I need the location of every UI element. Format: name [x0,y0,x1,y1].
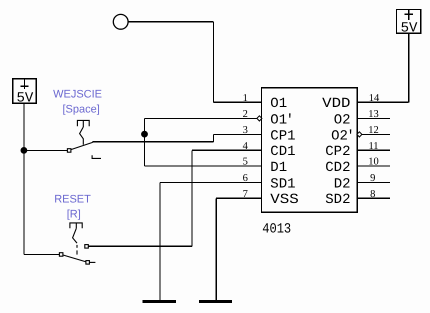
node diamond pin12 [357,132,362,137]
wire stub pin12 [357,133,390,135]
svg-text:4: 4 [243,141,249,152]
svg-text:WEJSCIE: WEJSCIE [53,88,102,100]
wire 5V left down [23,103,25,254]
svg-text:O1: O1 [270,96,287,112]
svg-text:14: 14 [369,93,380,104]
svg-text:D1: D1 [270,160,287,176]
svg-text:10: 10 [368,157,379,168]
svg-text:3: 3 [243,125,248,136]
switch S1 contacts [67,141,101,158]
op IC U1 4013 box [262,88,358,212]
svg-text:CP1: CP1 [270,128,295,144]
svg-text:2: 2 [243,109,248,120]
svg-text:1: 1 [243,93,248,104]
wire pin1 [213,101,261,103]
svg-text:6: 6 [243,173,248,184]
wire pin4 CD1 [192,149,262,151]
svg-text:[R]: [R] [67,209,81,221]
svg-text:11: 11 [368,141,378,152]
svg-text:VSS: VSS [270,192,299,208]
wire pin2 O1' [145,117,262,119]
svg-text:4013: 4013 [262,221,291,237]
wire pin3 CP1 [213,133,261,135]
switch S2 actuator [70,223,82,255]
svg-text:9: 9 [370,173,375,184]
svg-text:13: 13 [368,109,379,120]
svg-text:[Space]: [Space] [63,103,100,115]
ground GND2 [199,300,232,303]
svg-text:CD2: CD2 [325,160,350,176]
wire O1' to D1 [144,118,146,166]
wire stub pin13 [357,117,390,119]
wire stub pin11 [357,149,390,151]
svg-text:5V: 5V [401,21,418,37]
svg-text:VDD: VDD [322,96,350,112]
wire VSS to ground [215,198,217,300]
wire [408,33,410,102]
svg-text:RESET: RESET [54,193,91,205]
svg-text:5V: 5V [17,90,34,106]
wire pin14 [357,101,408,103]
wire CD1 horizontal [88,245,192,247]
switch S2 contacts [59,245,95,265]
svg-text:CD1: CD1 [270,144,295,160]
switch S1 actuator [77,120,89,144]
power supply V1 (left 5V) [13,79,37,107]
svg-text:5: 5 [243,157,248,168]
svg-text:O2: O2 [334,112,351,128]
wire SD1 to ground [159,183,161,301]
svg-text:O2': O2' [331,128,355,144]
wire stub pin9 [357,182,390,184]
svg-text:CP2: CP2 [325,144,350,160]
junction dot A [21,147,28,154]
svg-text:SD1: SD1 [270,176,295,192]
svg-text:O1': O1' [270,112,294,128]
svg-text:12: 12 [368,125,379,136]
wire stub pin8 [357,197,390,199]
ground GND1 [143,300,176,303]
svg-text:8: 8 [370,189,375,200]
wire stub pin10 [357,165,390,167]
wire pin6 SD1 [160,182,262,184]
svg-text:D2: D2 [334,176,351,192]
power supply V2 (top right 5V) [397,9,421,36]
wire jog [212,134,214,141]
svg-text:7: 7 [243,189,248,200]
wire to switch S2 [24,253,60,255]
wire [129,21,214,23]
junction dot B [141,131,148,138]
wire [212,22,214,103]
wire CD1 vertical [191,150,193,246]
wire pin5 D1 [145,165,262,167]
terminal circle [113,14,128,29]
node diamond pin2 [257,116,262,121]
wire switch to CP1 [93,141,214,143]
wire pin7 VSS [216,197,261,199]
svg-text:SD2: SD2 [325,192,350,208]
wire to switch S1 [24,149,68,151]
